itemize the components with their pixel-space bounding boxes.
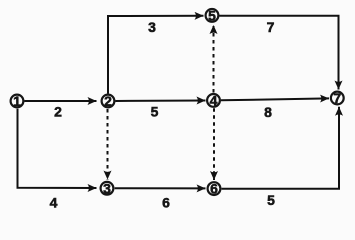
node 2 (102, 93, 115, 109)
svg-text:3: 3 (103, 180, 111, 196)
wire 5-7 (219, 16, 338, 90)
svg-text:7: 7 (333, 90, 341, 106)
svg-text:3: 3 (148, 19, 156, 35)
wire 1-3 (18, 109, 97, 188)
dummy wire 2-3 (dashed, arrow down) (107, 109, 109, 180)
svg-text:5: 5 (151, 104, 159, 120)
svg-text:6: 6 (162, 195, 170, 211)
svg-text:2: 2 (54, 104, 62, 120)
svg-text:4: 4 (50, 195, 58, 211)
svg-text:2: 2 (104, 93, 112, 109)
node 3 (101, 180, 114, 196)
svg-text:7: 7 (267, 19, 275, 35)
svg-text:8: 8 (264, 104, 272, 120)
node 7 (331, 90, 344, 106)
node 4 (207, 93, 220, 109)
wire 2-4 (116, 100, 206, 103)
wire 3-6 (115, 187, 206, 189)
wire 6-7 (222, 107, 339, 189)
wire 4-7 (221, 98, 329, 100)
dummy wire 4-5 (dashed, arrow up) (213, 25, 215, 93)
wire 1-2 (25, 100, 97, 102)
svg-text:5: 5 (267, 192, 275, 208)
svg-text:5: 5 (208, 8, 216, 24)
dummy wire 4-6 (dashed, arrow down) (213, 108, 215, 180)
node 5 (206, 8, 219, 24)
svg-text:1: 1 (13, 93, 21, 109)
svg-text:4: 4 (210, 93, 218, 109)
node 6 (208, 181, 221, 197)
wire 2-5 (108, 16, 204, 94)
svg-text:6: 6 (210, 181, 218, 197)
node 1 (11, 93, 24, 109)
